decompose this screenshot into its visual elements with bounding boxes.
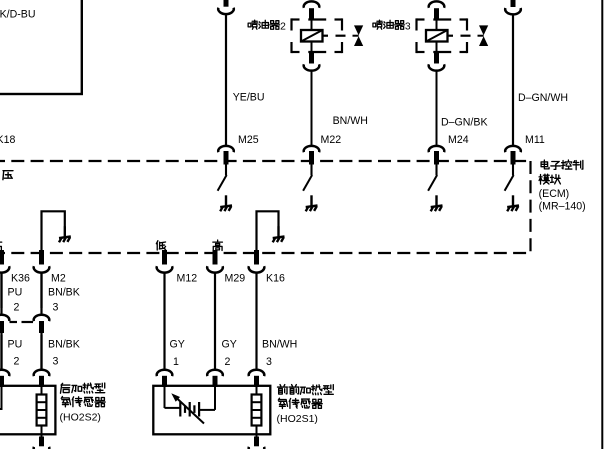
svg-text:M24: M24 [448,134,469,146]
svg-text:3: 3 [53,302,59,314]
svg-text:3: 3 [405,22,411,33]
svg-text:M12: M12 [177,273,198,285]
svg-text:BN/WH: BN/WH [262,339,297,351]
svg-text:1: 1 [173,356,179,368]
svg-text:BN/WH: BN/WH [333,115,368,127]
svg-text:M22: M22 [321,134,342,146]
svg-text:PU: PU [8,287,23,299]
svg-text:GY: GY [222,339,237,351]
svg-text:D–GN/BK: D–GN/BK [441,117,488,129]
svg-text:2: 2 [14,302,20,314]
svg-text:2: 2 [14,356,20,368]
svg-text:(HO2S2): (HO2S2) [60,412,101,424]
svg-text:2: 2 [225,356,231,368]
svg-text:(ECM): (ECM) [539,188,570,200]
svg-text:BN/BK: BN/BK [48,287,80,299]
svg-text:YE/BU: YE/BU [233,92,265,104]
svg-text:GY: GY [170,339,185,351]
svg-text:PU: PU [8,339,23,351]
svg-text:(HO2S1): (HO2S1) [277,413,318,425]
svg-text:D–GN/WH: D–GN/WH [518,92,568,104]
svg-text:K36: K36 [11,273,30,285]
svg-text:M29: M29 [225,273,246,285]
svg-text:(MR–140): (MR–140) [539,201,586,213]
svg-text:M11: M11 [525,134,545,146]
svg-text:K18: K18 [0,134,15,146]
svg-text:3: 3 [266,356,272,368]
svg-text:M25: M25 [238,134,259,146]
svg-text:3: 3 [53,356,59,368]
svg-text:K16: K16 [266,273,285,285]
svg-text:2: 2 [280,22,286,33]
svg-text:BK/D-BU: BK/D-BU [0,9,35,21]
svg-text:M2: M2 [51,273,66,285]
svg-text:BN/BK: BN/BK [48,339,80,351]
